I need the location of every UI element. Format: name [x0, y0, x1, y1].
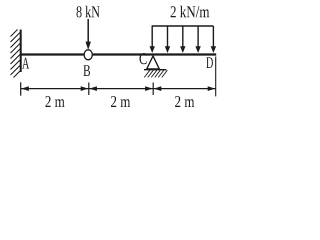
distributed load arrow 2 [165, 26, 170, 53]
node label C [140, 53, 147, 64]
ground hatching at C [144, 70, 167, 77]
8 kN point load arrow at B [87, 19, 89, 43]
distributed load arrow 3 [180, 26, 185, 53]
value label 2 kN/m [171, 6, 210, 18]
ground line at C [144, 69, 166, 71]
dimension tick at C [152, 83, 154, 96]
dimension text 2 m (A-B) [45, 96, 64, 107]
dimension tick at B [88, 83, 90, 96]
wall face line at A [20, 30, 22, 73]
distributed load arrow 5 [211, 26, 216, 53]
hinge circle at B [84, 50, 92, 60]
distributed load arrow 1 [150, 26, 155, 53]
value label 8 kN [77, 6, 100, 18]
dimension arrowhead pointing left at A [21, 86, 29, 91]
distributed load top line [152, 25, 214, 27]
node label A [22, 58, 29, 69]
fixed support wall hatching at A [11, 30, 21, 78]
dimension arrowhead pointing left into C tick [154, 86, 162, 91]
extension line at D [215, 57, 217, 97]
dimension text 2 m (C-D) [175, 96, 194, 107]
dimension line [21, 88, 216, 90]
dimension arrowhead pointing right into B tick [81, 86, 89, 91]
dimension arrowhead pointing right into C tick [145, 86, 153, 91]
dimension text 2 m (B-C) [111, 96, 130, 107]
dimension tick at A [20, 82, 22, 95]
beam A-D [21, 53, 217, 55]
dimension arrowhead pointing right at D [208, 86, 216, 91]
pin support triangle at C [147, 56, 160, 69]
node label D [206, 57, 213, 68]
dimension arrowhead pointing left into B tick [89, 86, 97, 91]
node label B [83, 65, 90, 76]
distributed load arrow 4 [195, 26, 200, 53]
